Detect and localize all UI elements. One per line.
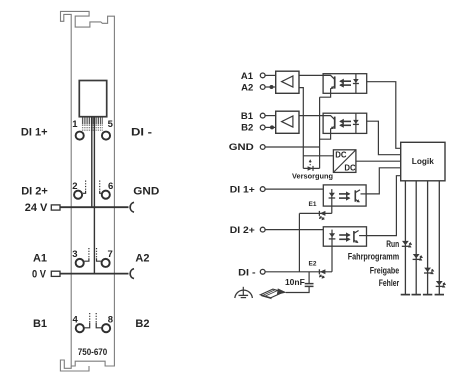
svg-text:GND: GND	[133, 186, 159, 198]
svg-text:E2: E2	[309, 260, 317, 267]
svg-text:A2: A2	[241, 82, 253, 93]
svg-text:DI 2+: DI 2+	[230, 225, 255, 236]
svg-text:Fahrprogramm: Fahrprogramm	[348, 251, 400, 261]
svg-text:DC: DC	[335, 151, 347, 160]
svg-text:10nF: 10nF	[285, 277, 305, 287]
svg-text:A1: A1	[33, 252, 47, 264]
svg-text:A2: A2	[135, 252, 149, 264]
svg-text:7: 7	[107, 249, 112, 260]
svg-text:2: 2	[72, 181, 77, 192]
svg-text:24 V: 24 V	[25, 202, 48, 214]
svg-text:3: 3	[72, 249, 77, 260]
svg-text:A1: A1	[241, 71, 254, 82]
svg-text:Logik: Logik	[412, 156, 434, 166]
svg-text:DI 1+: DI 1+	[230, 184, 255, 195]
svg-text:6: 6	[108, 181, 113, 192]
svg-text:E1: E1	[309, 201, 317, 208]
svg-text:8: 8	[108, 315, 113, 326]
svg-text:Freigabe: Freigabe	[370, 265, 400, 275]
svg-text:DI 2+: DI 2+	[21, 185, 48, 197]
svg-text:B1: B1	[33, 318, 47, 330]
svg-text:B1: B1	[241, 111, 254, 122]
svg-text:DI -: DI -	[238, 267, 255, 278]
svg-text:GND: GND	[229, 142, 254, 153]
svg-text:DC: DC	[344, 163, 356, 172]
svg-text:4: 4	[73, 315, 79, 326]
svg-text:1: 1	[72, 119, 78, 130]
svg-text:Run: Run	[386, 239, 399, 249]
svg-text:5: 5	[108, 119, 114, 130]
svg-text:Versorgung: Versorgung	[292, 172, 333, 181]
svg-text:DI 1+: DI 1+	[21, 127, 48, 139]
svg-text:DI -: DI -	[131, 127, 152, 139]
svg-text:B2: B2	[135, 318, 149, 330]
svg-text:750-670: 750-670	[78, 347, 108, 358]
svg-text:Fehler: Fehler	[379, 278, 400, 288]
svg-text:B2: B2	[241, 123, 253, 134]
svg-text:0 V: 0 V	[32, 268, 47, 280]
